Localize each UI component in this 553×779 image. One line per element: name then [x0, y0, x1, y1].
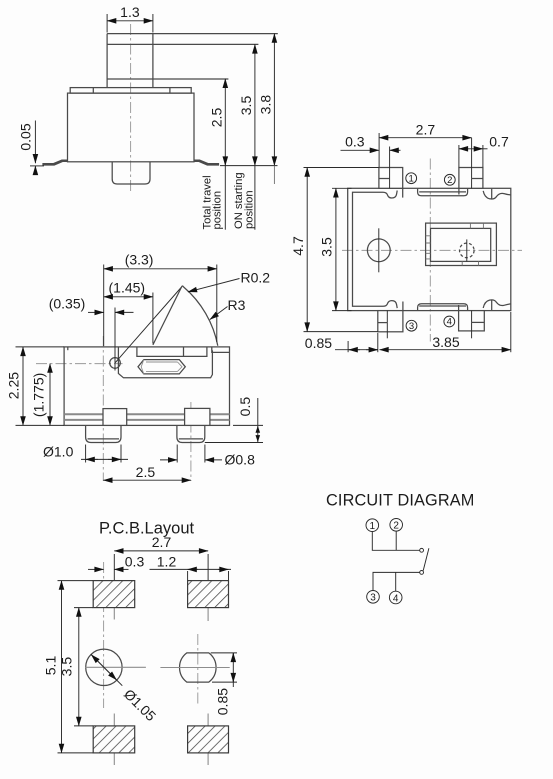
svg-text:2.7: 2.7 [152, 534, 172, 550]
svg-text:2.5: 2.5 [209, 108, 225, 128]
contact top [420, 548, 424, 552]
top cover tab [418, 189, 468, 196]
inner pocket [137, 348, 207, 357]
leader R3 [210, 307, 228, 320]
svg-text:R0.2: R0.2 [241, 270, 271, 286]
top plate [70, 88, 191, 94]
terminal circle 4 [389, 591, 402, 604]
left hole centerline [103, 562, 105, 708]
svg-text:3.5: 3.5 [59, 657, 75, 677]
svg-text:2.7: 2.7 [416, 122, 436, 138]
dimension (1.775) [49, 364, 51, 426]
dimension 0.3 pcb [88, 568, 104, 570]
pad centerline left column [113, 554, 115, 581]
dimension 2.5 [224, 79, 226, 166]
svg-text:2.5: 2.5 [136, 464, 156, 480]
terminal 3 [378, 311, 403, 332]
seat baseline [220, 165, 278, 167]
svg-text:P.C.B.Layout: P.C.B.Layout [99, 520, 195, 538]
terminal circle 1 [366, 519, 379, 532]
dimension 2.5 pitch [103, 479, 191, 481]
dimension 2.25 [16, 346, 65, 348]
dimension (0.35) [114, 308, 116, 357]
terminal 1 [379, 168, 403, 189]
leader D1.05 [91, 655, 116, 680]
hole center reference line [36, 363, 123, 365]
dimension 3.5 [332, 187, 352, 189]
horizontal centerline [342, 249, 522, 251]
svg-text:0.85: 0.85 [215, 688, 231, 715]
svg-text:Ø1.0: Ø1.0 [43, 444, 74, 460]
dimension 3.85 bottom [510, 312, 512, 352]
dimension 0.05 [34, 121, 36, 164]
wire from 4 [395, 572, 397, 591]
svg-text:4: 4 [393, 593, 399, 604]
svg-text:position: position [212, 191, 224, 230]
svg-text:0.5: 0.5 [237, 397, 253, 417]
svg-text:3: 3 [370, 593, 376, 604]
svg-text:(0.35): (0.35) [49, 295, 86, 311]
left hole [367, 239, 390, 262]
svg-text:Ø0.8: Ø0.8 [225, 451, 256, 467]
pivot hole [110, 358, 121, 369]
centerline left leg [102, 336, 104, 481]
svg-text:2: 2 [447, 175, 452, 186]
right hole flatted circle [180, 653, 217, 682]
wire from 3 [373, 572, 420, 590]
dimension 1.3 [106, 14, 108, 33]
terminal circle 3 [367, 591, 380, 604]
dimension 5.1 [58, 580, 94, 582]
dimension 3.8 [273, 34, 275, 166]
bottom right corner wave [483, 300, 511, 308]
pad bottom-right [188, 726, 229, 753]
centerline right leg [190, 402, 192, 481]
svg-text:(1.45): (1.45) [109, 279, 146, 295]
dimension 0.7 top [458, 145, 460, 167]
left lead [43, 160, 68, 166]
svg-text:0.05: 0.05 [18, 123, 34, 150]
top right corner wave [483, 191, 511, 199]
centerline front view [130, 24, 132, 194]
dimension 2.7 top [378, 133, 380, 167]
svg-text:position: position [243, 190, 255, 229]
pin number 3 [406, 320, 417, 332]
wire from 1 [372, 532, 419, 551]
svg-text:1: 1 [409, 173, 414, 184]
console housing [118, 347, 212, 378]
body lamination lines [64, 413, 229, 415]
svg-text:0.85: 0.85 [305, 335, 332, 351]
svg-text:5.1: 5.1 [43, 656, 59, 676]
right lead [194, 160, 219, 166]
svg-text:1.3: 1.3 [120, 4, 140, 20]
terminal 2 [459, 168, 483, 189]
svg-text:0.7: 0.7 [489, 134, 509, 150]
dimension D1.0 [85, 445, 87, 463]
dimension 1.2 pcb [187, 571, 189, 580]
dimension (1.45) [152, 293, 154, 344]
svg-text:3.85: 3.85 [432, 334, 459, 350]
left leg pin [86, 425, 121, 442]
switch lever [423, 548, 429, 570]
dimension 0.3 top [341, 149, 379, 151]
dimension 4.7 [304, 167, 379, 169]
svg-text:(1.775): (1.775) [31, 373, 47, 417]
wire from 2 [395, 531, 397, 550]
svg-text:0.3: 0.3 [345, 133, 365, 149]
dimension D0.8 [176, 445, 178, 463]
dimension 0.85 bottom left [347, 341, 349, 352]
side body outline [64, 347, 229, 426]
svg-text:2: 2 [393, 521, 399, 532]
plunger hole dashed [460, 243, 475, 258]
top right ledge [212, 347, 230, 353]
svg-text:4: 4 [447, 317, 452, 328]
dimension 0.5 [233, 424, 263, 426]
switch body [68, 93, 195, 162]
svg-text:3: 3 [409, 321, 414, 332]
svg-text:4.7: 4.7 [290, 236, 306, 256]
svg-text:3.5: 3.5 [238, 96, 254, 116]
left shoulder [103, 409, 127, 426]
slot [138, 360, 185, 374]
contact bottom [420, 571, 424, 575]
svg-text:1.2: 1.2 [157, 553, 177, 569]
right leg pin [177, 425, 205, 442]
pad centerline right column [207, 554, 209, 581]
inner left wall [353, 191, 398, 309]
plunger housing [426, 223, 497, 265]
terminal circle 2 [390, 519, 403, 532]
svg-text:3.8: 3.8 [258, 95, 274, 115]
pin number 2 [444, 174, 455, 186]
push button plunger [107, 34, 153, 88]
vertical centerline [429, 159, 431, 342]
dimension 3.5 pcb [74, 607, 93, 609]
dimension (3.3) [103, 265, 105, 347]
dimension 3.5 [254, 44, 256, 165]
right hole centerline [197, 634, 199, 706]
dimension 0.85 pcb [211, 652, 237, 654]
svg-text:0.3: 0.3 [125, 553, 145, 569]
lever fin [153, 286, 218, 346]
dimension 2.7 pcb [114, 550, 208, 552]
leader R0.2 [188, 279, 240, 292]
bottom cover tab [418, 304, 468, 311]
pin number 1 [406, 173, 417, 185]
pin number 4 [444, 316, 455, 328]
pad top-left [93, 581, 135, 608]
body outline [348, 188, 511, 310]
svg-text:3.5: 3.5 [319, 237, 335, 257]
svg-text:2.25: 2.25 [6, 372, 22, 399]
svg-text:R3: R3 [228, 297, 246, 313]
bottom stem [112, 162, 150, 184]
left hole circle [86, 649, 122, 685]
pad bottom-left [93, 726, 135, 753]
svg-text:CIRCUIT DIAGRAM: CIRCUIT DIAGRAM [326, 492, 475, 510]
terminal 4 [459, 311, 485, 331]
svg-text:1: 1 [370, 521, 376, 532]
pad top-right [188, 581, 229, 608]
right shoulder [185, 408, 210, 425]
lever line [115, 287, 182, 363]
svg-text:(3.3): (3.3) [125, 251, 154, 267]
